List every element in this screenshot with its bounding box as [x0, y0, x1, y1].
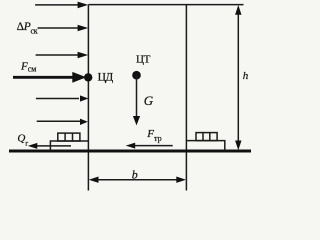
- node dot CT (center of gravity): [132, 71, 141, 80]
- ground line: [9, 150, 251, 153]
- wall left edge (with b-dimension extension below ground): [87, 5, 89, 191]
- pressure arrow 2: [38, 25, 89, 32]
- svg-text:b: b: [132, 167, 138, 181]
- svg-text:Fтр: Fтр: [146, 128, 161, 143]
- force Fsm bold arrow: [13, 72, 86, 83]
- top reference line: [88, 4, 243, 6]
- right anchor block: [186, 133, 224, 151]
- node dot CD (center of pressure): [84, 73, 92, 81]
- force Qg arrow: [28, 143, 71, 149]
- svg-text:ΔPск: ΔPск: [17, 21, 38, 35]
- pressure arrow 1: [35, 2, 88, 9]
- svg-text:Fсм: Fсм: [20, 60, 36, 73]
- svg-text:ЦД: ЦД: [98, 72, 114, 84]
- force Ftr arrow: [126, 143, 173, 149]
- svg-text:ЦТ: ЦТ: [136, 53, 151, 65]
- pressure arrow 3: [36, 52, 89, 59]
- dimension h: [235, 5, 241, 150]
- svg-text:Qг: Qг: [17, 133, 28, 148]
- left anchor block: [50, 133, 88, 151]
- dimension b: [89, 177, 186, 183]
- force G arrow: [133, 75, 140, 125]
- svg-text:G: G: [144, 93, 154, 108]
- wall right edge (with b-dimension extension below ground): [185, 5, 187, 191]
- pressure arrow 5: [37, 119, 88, 125]
- svg-text:h: h: [243, 70, 249, 82]
- pressure arrow 4: [36, 95, 89, 101]
